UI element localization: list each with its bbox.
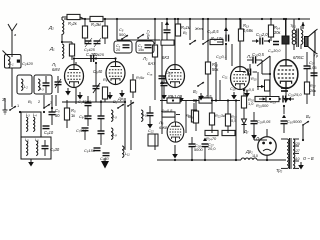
svg-text:220: 220 [294, 142, 300, 146]
svg-text:L₃: L₃ [40, 86, 44, 91]
svg-text:R₃3м: R₃3м [91, 22, 101, 27]
svg-text:26к: 26к [310, 88, 316, 93]
svg-text:C₆30: C₆30 [79, 114, 89, 119]
svg-text:Л₄: Л₄ [246, 54, 252, 59]
svg-text:6Ж8: 6Ж8 [159, 125, 168, 130]
svg-text:C₁₉: C₁₉ [230, 86, 236, 91]
svg-text:C₁420: C₁420 [22, 61, 34, 66]
svg-text:C₇500: C₇500 [76, 128, 88, 133]
svg-text:6К3: 6К3 [162, 55, 170, 60]
svg-text:R₆: R₆ [103, 77, 108, 82]
svg-text:C₁₂0,1: C₁₂0,1 [216, 54, 227, 59]
svg-text:Тр₁: Тр₁ [290, 23, 297, 28]
svg-text:Д₁: Д₁ [49, 46, 55, 51]
svg-text:В₂: В₂ [183, 30, 188, 35]
svg-text:L₃: L₃ [26, 112, 30, 117]
svg-text:C₅5000: C₅5000 [78, 99, 92, 104]
svg-text:110: 110 [294, 157, 300, 161]
svg-text:15к: 15к [138, 48, 144, 52]
svg-text:Л₂: Л₂ [142, 56, 148, 61]
svg-text:127: 127 [294, 149, 300, 153]
svg-text:R₁₅: R₁₅ [251, 76, 257, 81]
svg-text:R₁₈1,0: R₁₈1,0 [168, 94, 180, 99]
svg-text:R₂₂3к: R₂₂3к [215, 113, 225, 118]
svg-text:C₂5м: C₂5м [146, 30, 151, 39]
svg-text:R₂₀0,8: R₂₀0,8 [161, 108, 173, 113]
svg-text:R₂₅500: R₂₅500 [256, 103, 269, 108]
svg-text:R₁₁10к: R₁₁10к [211, 36, 224, 41]
svg-text:1,0: 1,0 [248, 101, 254, 106]
svg-text:В₃: В₃ [113, 99, 118, 104]
svg-text:20: 20 [116, 48, 120, 52]
svg-text:R₇5к: R₇5к [136, 75, 144, 80]
svg-text:20,0: 20,0 [208, 146, 216, 151]
svg-text:C₅40: C₅40 [93, 69, 103, 74]
svg-text:C₁₆: C₁₆ [147, 72, 153, 76]
svg-text:C₁₃2,0: C₁₃2,0 [256, 32, 268, 37]
svg-text:50к: 50к [212, 67, 219, 72]
svg-text:R₂₄70: R₂₄70 [206, 136, 217, 141]
svg-text:C₉30: C₉30 [50, 147, 60, 152]
svg-text:Жел: Жел [194, 26, 204, 31]
svg-text:0,68к: 0,68к [243, 28, 253, 33]
svg-text:З₁: З₁ [2, 97, 7, 102]
svg-text:0,05: 0,05 [309, 65, 317, 70]
svg-text:6П6С: 6П6С [293, 55, 305, 60]
svg-text:C₂₀0,5: C₂₀0,5 [252, 52, 265, 57]
svg-text:L₅: L₅ [25, 137, 29, 142]
svg-text:C₈150: C₈150 [84, 148, 96, 153]
svg-text:Др₁: Др₁ [117, 96, 125, 101]
svg-text:C₆10: C₆10 [44, 130, 54, 135]
svg-text:C₃₀5000: C₃₀5000 [287, 119, 302, 124]
svg-text:C₁₀: C₁₀ [166, 70, 172, 75]
svg-text:В₄: В₄ [306, 114, 311, 119]
svg-text:C₂₂: C₂₂ [148, 128, 154, 133]
svg-text:L₆: L₆ [35, 137, 39, 142]
svg-text:C₂₉0,05: C₂₉0,05 [257, 119, 271, 124]
svg-text:C₁₄0,5: C₁₄0,5 [207, 29, 219, 34]
svg-text:C₁₅30,0: C₁₅30,0 [268, 49, 281, 53]
svg-text:L₄: L₄ [33, 112, 37, 117]
svg-text:C₂₁: C₂₁ [222, 74, 228, 79]
svg-text:Д₂: Д₂ [48, 25, 54, 30]
svg-text:1: 1 [17, 103, 19, 108]
svg-text:110: 110 [252, 154, 258, 158]
svg-text:L₉: L₉ [113, 132, 117, 137]
svg-text:L₁₁: L₁₁ [125, 151, 130, 156]
svg-text:L₂: L₂ [24, 84, 28, 89]
svg-text:R₁₆: R₁₆ [188, 114, 194, 119]
svg-text:2: 2 [38, 99, 40, 104]
svg-text:Тр₂: Тр₂ [276, 168, 283, 173]
svg-text:О ~ В: О ~ В [303, 156, 314, 161]
svg-text:6И4: 6И4 [52, 67, 60, 72]
svg-text:L₈: L₈ [113, 114, 117, 119]
svg-text:C₂₈25,0: C₂₈25,0 [288, 92, 302, 97]
svg-text:5000: 5000 [194, 147, 203, 152]
svg-text:C₄425: C₄425 [93, 52, 105, 57]
svg-text:1к: 1к [71, 113, 75, 118]
svg-text:20к: 20к [274, 30, 281, 35]
svg-text:R₂2к: R₂2к [68, 21, 78, 26]
svg-text:50: 50 [55, 113, 60, 118]
svg-text:В₂: В₂ [193, 89, 198, 94]
